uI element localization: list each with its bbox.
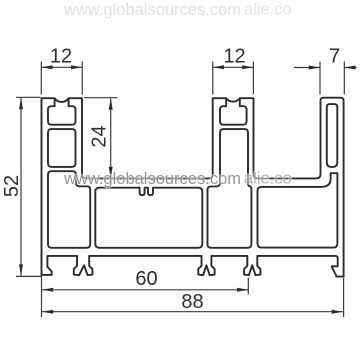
middle tower chamber 1 with gasket-arc ceiling [220,99,247,125]
arrows dim 60 [42,288,53,292]
profile outer contour: left wall, towers, channel floors, right piece, bottom feet [42,98,344,277]
arrows dim 24 [109,98,113,109]
dimension texts [1,46,340,313]
svg-text:12: 12 [223,46,245,68]
dim 7 leader lines (outside arrows) [294,67,357,69]
dim 24 top extension line [84,97,118,99]
svg-text:www.globalsources.com: www.globalsources.com [63,170,241,188]
arrows dim 12 middle tower [213,65,224,69]
svg-text:88: 88 [181,291,203,313]
svg-text:24: 24 [89,125,111,147]
svg-text:7: 7 [329,46,340,68]
left tower chamber 1 with gasket-arc ceiling [48,99,76,125]
dim 12 (left tower) extension lines [41,62,82,95]
arrows dim 7 (outside) [309,66,320,70]
dim 12 (middle tower) extension lines [213,62,254,95]
watermark www.globalsources.com [63,170,292,189]
svg-text:60: 60 [135,268,157,290]
chamber under channel 1 with two screw serrations in ceiling [95,188,202,248]
dim 52 bottom extension line [16,275,41,277]
arrows dim 12 left tower [41,65,52,69]
svg-text:12: 12 [50,46,72,68]
svg-text:alie.co: alie.co [244,170,292,188]
left tower chamber 2 [48,129,76,167]
right piece inner slot [327,104,338,167]
left wall extension for dims 60 and 88 [41,276,43,317]
dim 88 right extension line [343,278,345,317]
arrowheads [19,65,356,313]
svg-text:www.globalsources.com: www.globalsources.com [63,1,241,19]
watermark faint top tile [63,1,292,20]
dim 52 top extension line [16,96,41,98]
svg-text:alie.co: alie.co [244,1,292,19]
dim 88 line [42,311,343,313]
arrows dim 88 [42,310,53,314]
dim 12 (left tower) line [41,66,82,68]
dim 12 (middle tower) line [213,66,254,68]
left tower chamber 3 (tall, stepped at top right) [48,171,90,248]
dim 60 right extension line [247,278,249,295]
dim 7 extension lines [320,62,344,95]
chamber under channel 2 (flask shape with neck at top right) [258,173,338,247]
dim 60 line [42,289,248,291]
dim 52 line [20,98,22,276]
arrows dim 52 [19,98,23,109]
dim 24 line [110,98,112,177]
dimension lines and extension lines [16,62,357,318]
svg-text:52: 52 [1,175,23,197]
middle tower tall cavity (widens below channel floor) [208,129,252,248]
